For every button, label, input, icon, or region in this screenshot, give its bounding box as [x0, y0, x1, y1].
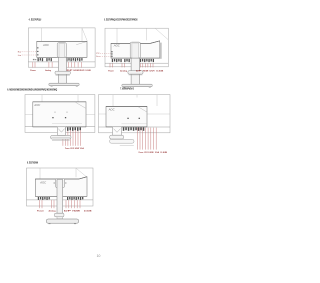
svg-text:D-SUB: D-SUB [84, 211, 92, 213]
frame 4 [99, 95, 171, 133]
svg-text:VGA: VGA [80, 147, 84, 150]
VESA holes 3 [52, 117, 53, 118]
monitor rear panel 1 [37, 41, 87, 57]
svg-text:8. E2270SWN: 8. E2270SWN [27, 161, 38, 165]
frame 2 [105, 28, 168, 67]
frame 3 [25, 95, 95, 133]
svg-text:Power: Power [30, 69, 36, 72]
stand column 1 [58, 57, 66, 83]
svg-text:AOC: AOC [39, 181, 46, 184]
svg-text:HDMI: HDMI [143, 70, 149, 72]
connector row 4 [123, 127, 125, 131]
svg-text:HDMI: HDMI [149, 152, 154, 154]
svg-text:6. M2060SWD2/M2060SWDA2/M2060P: 6. M2060SWD2/M2060SWDA2/M2060PWQ M2060SW… [7, 87, 57, 91]
svg-text:AOC: AOC [113, 44, 120, 47]
svg-text:D-SUB: D-SUB [156, 70, 163, 72]
stand hinge 2 [130, 42, 140, 58]
desk back line 3 [25, 113, 33, 115]
connector row 1 [38, 58, 39, 61]
frame 5 [27, 168, 94, 206]
wall lines 2 [116, 28, 118, 43]
connector seam 4 [122, 123, 147, 125]
monitor rear panel 3 [33, 102, 86, 127]
wall lines 4 [112, 95, 114, 107]
frame 1 [28, 28, 95, 67]
svg-text:Analog: Analog [120, 69, 128, 72]
leader lines 5 [38, 200, 40, 208]
svg-text:Analog: Analog [49, 210, 57, 213]
svg-text:D-SUB: D-SUB [161, 152, 168, 154]
side ports 1 [37, 47, 39, 48]
pedestal base 3 [51, 135, 71, 139]
svg-text:Power: Power [65, 147, 70, 150]
stand base 5 [46, 219, 78, 223]
svg-text:Power: Power [37, 210, 44, 213]
leader lines 4 [136, 128, 138, 150]
wall lines 3 [41, 95, 43, 102]
desk edge 5 [27, 199, 94, 201]
svg-text:10: 10 [97, 254, 101, 258]
desk front line 3 [25, 126, 95, 128]
side ports 2 [111, 51, 113, 52]
svg-text:4. E2270PQU: 4. E2270PQU [29, 18, 42, 22]
stand collar 2 [128, 71, 143, 74]
svg-text:DVI: DVI [150, 70, 156, 72]
svg-text:7. M2060PWDA2: 7. M2060PWDA2 [120, 86, 134, 90]
svg-text:D-SUB: D-SUB [86, 70, 92, 72]
desk back line 4 [99, 113, 107, 115]
connector row 5 [38, 197, 39, 200]
svg-text:HDMI: HDMI [72, 211, 80, 213]
svg-text:VGA: VGA [155, 151, 160, 154]
pedestal base 4 [110, 135, 124, 139]
svg-text:Power: Power [139, 151, 144, 154]
svg-text:Analog: Analog [45, 69, 51, 72]
stand base 2 [122, 84, 152, 87]
wall lines 1 [41, 28, 43, 41]
desk edge 2 [105, 62, 168, 64]
wall lines 5 [39, 168, 41, 179]
svg-text:Ear: Ear [18, 52, 22, 54]
stand collar 5 [55, 213, 64, 217]
leader lines 2 [109, 63, 111, 67]
stand column 2 [131, 58, 140, 84]
monitor rear panel 4 [106, 106, 147, 127]
monitor rear panel 5 [35, 177, 87, 197]
pedestal neck 3 [57, 127, 65, 136]
svg-text:In: In [96, 56, 99, 58]
stand base 1 [49, 83, 79, 86]
stand hinge 1 [57, 43, 66, 58]
stand hinge 5 [55, 179, 64, 188]
svg-text:AOC: AOC [107, 108, 114, 111]
connector row 3 [62, 127, 64, 131]
VESA holes 4 [127, 118, 128, 119]
svg-text:AOC: AOC [42, 44, 49, 47]
leader lines 1 [32, 62, 34, 68]
desk front line 4 [99, 126, 171, 128]
svg-text:Power: Power [108, 69, 114, 72]
svg-text:DVI: DVI [80, 70, 85, 72]
connector seam 3 [52, 123, 82, 125]
svg-text:5. E2270PWQU/E2270PWHE/E2270PW: 5. E2270PWQU/E2270PWHE/E2270PWDS [104, 18, 138, 22]
connector row 2 [112, 59, 113, 62]
svg-text:DVI: DVI [145, 152, 149, 154]
pedestal neck 4 [113, 127, 122, 135]
stand column 5 [57, 179, 63, 213]
leader lines 3 [62, 127, 64, 145]
stand collar 1 [55, 71, 70, 74]
svg-text:Lin: Lin [18, 55, 21, 57]
svg-text:AOC: AOC [33, 104, 40, 107]
desk edge 1 [28, 61, 95, 63]
monitor rear panel 2 [111, 41, 160, 58]
svg-text:HDMI: HDMI [75, 148, 79, 150]
